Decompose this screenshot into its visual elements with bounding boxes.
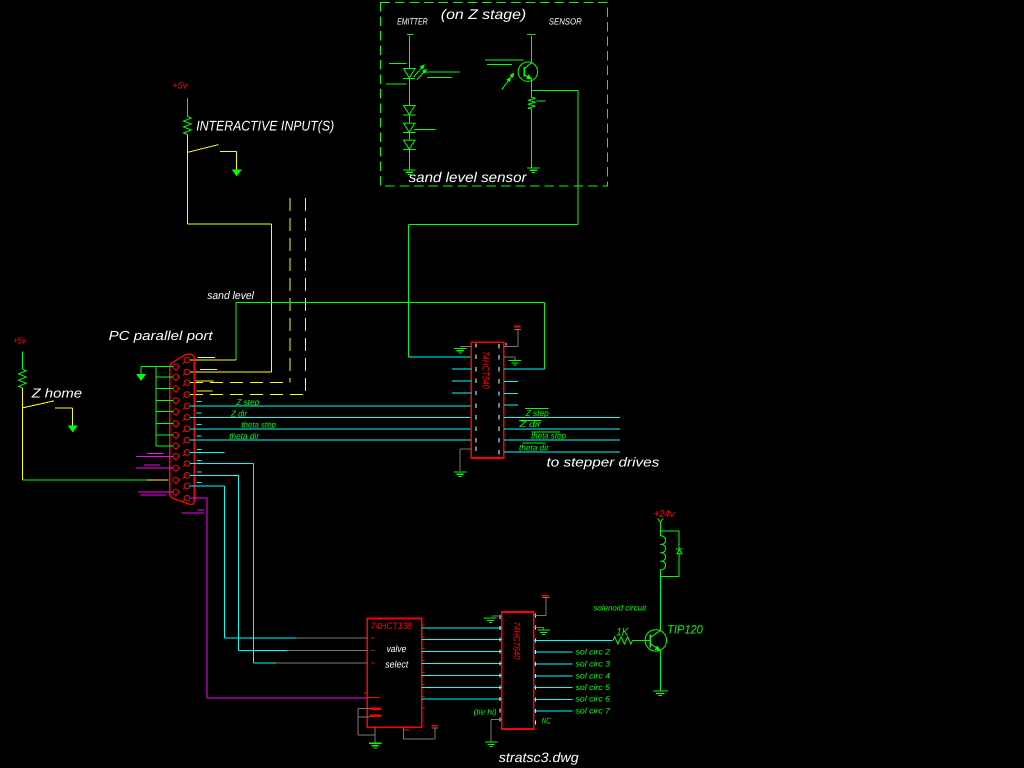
emitter top stub [407,33,413,35]
sensor top stub [527,33,535,35]
svg-text:sol circ 5: sol circ 5 [576,683,611,692]
wire [408,115,410,123]
wire port theta step [190,428,471,430]
resistor R5 1K base [613,637,633,644]
ground at U1 pin 19 [509,360,522,361]
svg-text:(on Z stage): (on Z stage) [441,6,526,22]
wire U1 output /Z dir [504,428,620,430]
wire Z home to port [21,408,23,480]
wire ground stub [156,423,173,425]
connector J1 pin (right col 9) [184,450,190,456]
wire emitter to node [531,79,533,91]
wire port enable (magenta) [190,497,207,499]
svg-text:sol circ 3: sol circ 3 [576,660,611,669]
U1 pin 19 G2 enable to ground [504,356,515,358]
ground at U3 pin 10 [485,742,498,743]
svg-text:to stepper drives: to stepper drives [547,455,660,470]
connector J1 pin (right col 7) [184,426,190,432]
svg-text:valve: valve [387,644,407,655]
wire U2 enables to ground [358,708,370,710]
wire port select C [190,463,253,465]
U3 pin 1 G1 to ground [491,615,502,617]
U1 pin number ticks (left) [475,343,477,347]
connector J1 pin (left col 17) [173,398,179,404]
wire ground stub [156,411,173,413]
diode D2 [404,106,415,115]
label /Z dir with overline [519,420,541,422]
transistor Q2 base bar [649,634,651,647]
U1 pin 20 VCC wire [504,345,519,347]
label /Z step with overline [525,407,549,409]
wire U3 output sol circ 1 [534,639,613,641]
wire sand level to port pin 1 [190,359,236,361]
svg-text:74HCT540: 74HCT540 [510,622,521,661]
wire port select B [190,474,238,476]
connector J1 pin (right col 10) [184,461,190,467]
wire sensor output down to buffer input [407,224,409,357]
connector J1 DB25 shell [170,354,195,504]
svg-text:TIP120: TIP120 [667,623,703,637]
phototransistor Q1 body [518,62,537,81]
transistor Q2 emitter lead [650,644,660,651]
LED emission arrow 1 [414,66,424,77]
connector J1 pin (left col 21) [173,443,179,449]
LED right lead ticks [425,71,459,73]
U3 pin 10 GND wire [491,719,502,721]
pin label dashes (cyan rows) [197,401,202,403]
node sensor output junction [532,89,579,91]
node coil top rail [660,530,679,532]
wire resistor to switch [186,135,188,153]
U1 pin 1 G1 enable to ground [460,345,472,347]
ground below emitter diodes [403,169,416,170]
wire to port pin 14 [190,371,271,373]
svg-text:solenoid circuit: solenoid circuit [593,603,646,612]
wire sensor collector [531,36,533,63]
ground arrow at switch SW2 [69,426,77,432]
svg-text:Z home: Z home [30,386,82,401]
wire ground stub [156,366,173,368]
connector J1 pin (left col 23) [173,465,179,471]
ground at U3 pin 1 [484,618,497,619]
svg-text:SENSOR: SENSOR [549,17,582,27]
svg-text:theta dir: theta dir [519,442,550,452]
power +24v? rail at U3 (+5v bar) [542,595,548,597]
phototransistor base lead ticks [485,59,524,61]
svg-text:NC: NC [542,716,552,726]
connector J1 pin (right col 13) [184,495,190,501]
LED emission arrow 2 [417,71,426,81]
switch SW2 contact wire [55,407,73,409]
U1 pin number ticks (right) [498,344,500,348]
svg-text:select: select [385,659,408,670]
U2 pin label dash [404,729,410,731]
power +5v rail at U1 [514,326,520,328]
connector J1 pin (right col 2) [184,369,190,375]
light arrow 1 into sensor [502,75,513,90]
U2 pin 8 GND wire [374,727,376,742]
port left stub wires (magenta) [136,455,173,457]
U3 pin number ticks (right) [534,613,536,617]
connector J1 pin (right col 12) [184,483,190,489]
svg-text:sol circ 4: sol circ 4 [576,671,611,680]
wire select A into U2 [224,637,296,639]
diode D4 [404,140,415,149]
wire sensor signal into 74HCT540 input A1 [408,356,471,358]
wire resistor to switch [21,388,23,408]
wire U3 output sol circ 4 [534,675,573,677]
wire port theta dir [190,439,471,441]
connector J1 pin (left col 18) [173,409,179,415]
svg-text:sand level: sand level [207,290,254,302]
ghost input wire dashed 1 [289,198,291,383]
U3 pin 19 G2 to ground [534,626,544,628]
wire emitter to ground [659,651,661,691]
svg-text:Z dir: Z dir [518,419,542,429]
U3 pin 20 VCC wire [534,614,546,616]
inductor L1 solenoid coil [659,531,661,536]
svg-text:74HCT138: 74HCT138 [371,621,413,632]
U3 pin number ticks (left) [499,615,501,619]
LED D1 emitter diode [404,69,416,78]
switch SW1 contact wire [220,151,237,153]
wire from +5v [21,352,23,370]
wire ground stub [156,376,173,378]
svg-text:+5v: +5v [13,335,27,346]
wire ground stub [156,434,173,436]
wire coil to transistor collector [659,576,661,630]
power arrow +24v [658,518,663,522]
svg-text:theta dir: theta dir [229,431,260,441]
svg-text:Z step: Z step [235,397,259,407]
ground below sensor resistor [527,167,540,168]
ground arrow at switch SW1 [233,170,241,176]
wire port stub (unused) [190,452,225,454]
wire bus to ground arrow [141,366,156,368]
U1 pin 20 outside tick [505,343,507,345]
wire U3 output sol circ 2 [534,651,573,653]
wires U2 outputs to U3 inputs [422,627,502,629]
svg-text:sol circ 6: sol circ 6 [576,695,611,704]
U2 right pin ticks [421,624,425,626]
svg-text:Z step: Z step [525,408,549,418]
wire resistor to base [633,639,651,641]
wire resistor to ground [531,109,533,167]
wire sensor output down out of box [577,90,579,224]
wire emitter anode [408,36,410,68]
connector J1 pin (right col 1) [184,357,190,363]
wire port Z dir [190,416,471,418]
wire sand level net [236,301,545,303]
wire sensor output horizontal [408,223,578,225]
wire port Z step [190,405,471,407]
svg-text:stratsc3.dwg: stratsc3.dwg [499,750,579,765]
svg-text:EMITTER: EMITTER [397,17,428,27]
power +5v rail at U2 [431,725,437,727]
connector J1 pin (left col 15) [173,374,179,380]
wire ground stub [156,400,173,402]
wire U1 output /Z step [504,416,620,418]
U2 pin 16 VCC wire [403,727,405,739]
svg-text:theta step: theta step [531,430,566,440]
switch SW2 blade [22,401,54,408]
wire select B into U2 [238,649,286,651]
connector J1 pin (right col 8) [184,437,190,443]
ghost input wire dashed 2 [305,198,307,395]
wire select C into U2 [253,662,276,664]
U1 unused input stubs [452,368,472,370]
phototransistor collector lead [524,63,531,69]
connector J1 pin (right col 5) [184,403,190,409]
svg-text:+24v: +24v [654,509,676,520]
wire U1 output Y1 (sand level) [504,368,545,370]
wire U3 output sol circ 3 [534,663,573,665]
U1 unused output stubs [504,380,518,382]
diode D3 [404,123,415,132]
svg-text:sol circ 2: sol circ 2 [576,648,611,657]
svg-text:+5v: +5v [172,81,189,92]
wire ground stub [156,445,173,447]
LED left lead ticks [389,63,406,65]
svg-text:(tie hi): (tie hi) [474,707,497,716]
connector J1 pin (left col 20) [173,432,179,438]
svg-text:PC parallel port: PC parallel port [109,328,215,343]
resistor R4 pullup Z home [19,369,27,388]
U2 enable pins G2A G2B (tied) [369,707,381,710]
label /theta dir with overline [523,442,546,444]
wire U1 output /theta step [504,439,620,441]
wire port select A [190,485,224,487]
svg-text:sand level sensor: sand level sensor [409,169,528,185]
pin label dashes (yellow rows) [198,357,216,359]
switch SW1 blade [187,145,218,153]
connector J1 pin (left col 16) [173,386,179,392]
wire U3 output sol circ 6 [534,698,573,700]
driver U3 74HCT540 body [502,612,534,729]
decoder U2 74HCT138 body [367,618,421,727]
buffer U1 74HCT540 body [471,342,503,458]
wire +24v to coil [659,522,661,531]
svg-text:Z dir: Z dir [230,408,248,418]
connector J1 pin (left col 24) [173,477,179,483]
wire switch to port [186,152,188,224]
svg-text:1K: 1K [616,627,629,639]
connector J1 pin (left col 14) [173,364,179,370]
ground at U2 pin 8 [369,743,382,744]
svg-text:sol circ 7: sol circ 7 [576,706,611,715]
U1 pin 10 GND wire [460,448,471,450]
ground arrow at port [137,375,145,381]
ground at U3 pin 19 [537,630,550,631]
wire to ground [408,150,410,170]
wire from +5v [186,98,188,117]
ground at U1 pin 10 [454,471,467,472]
wire U1 output /theta dir [504,451,620,453]
svg-text:74HCT540: 74HCT540 [479,351,490,390]
transistor Q2 collector lead [650,631,660,638]
ground at Q2 emitter [653,691,668,692]
connector J1 pin (left col 22) [173,454,179,460]
svg-text:INTERACTIVE INPUT(S): INTERACTIVE INPUT(S) [196,117,334,133]
ground bus on port left [155,367,157,446]
label /theta step with overline [532,431,560,433]
wire enable into U2 (magenta) [207,697,367,699]
light arrow 2 into sensor [507,78,510,82]
wire [408,133,410,141]
wire ground stub [156,388,173,390]
node coil bottom rail [660,575,679,577]
connector J1 pin (right col 11) [184,473,190,479]
diode D3 right tick [414,129,436,131]
flyback diode D5 branch [678,531,680,549]
wire U3 output sol circ 7 [534,710,573,712]
wire LED cathode to diode chain [408,78,410,105]
phototransistor emitter lead [524,75,531,79]
wire U3 output sol circ 5 [534,687,573,689]
pin 13 label dashes below connector [198,509,204,511]
transistor Q2 TIP120 body [645,630,667,652]
resistor R2 sensor pulldown [528,97,536,109]
sensor enclosure dashed box (on Z stage) [381,3,608,187]
connector J1 pin (right col 4) [184,392,190,398]
phototransistor base bar [523,67,525,77]
connector J1 pin (left col 25) [173,489,179,495]
connector J1 pin (right col 6) [184,415,190,421]
connector J1 pin (left col 19) [173,421,179,427]
U2 left pin ticks [371,637,375,639]
resistor R2 right tick [536,100,545,102]
connector J1 pin (right col 3) [184,380,190,386]
resistor R3 pullup [184,117,192,135]
ground at U1 pin 1 [454,348,467,349]
svg-text:theta step: theta step [242,420,277,430]
